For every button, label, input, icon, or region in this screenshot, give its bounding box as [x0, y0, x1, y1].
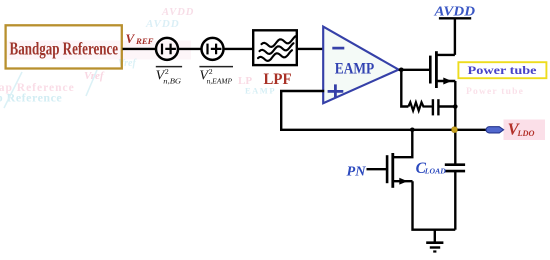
svg-text:Power tube: Power tube — [466, 87, 524, 97]
svg-text:REF: REF — [135, 36, 154, 46]
ghost text near LPF — [238, 75, 276, 96]
power rail bar and stem — [439, 18, 471, 55]
capacitor Cc — [433, 99, 455, 115]
ghost text AVDD top — [145, 7, 194, 30]
value label CLOAD — [416, 160, 447, 177]
svg-text:LDO: LDO — [517, 128, 535, 138]
wire drain down the output rail — [454, 81, 456, 165]
ghost text below bandgap box — [0, 58, 137, 108]
svg-text:PN: PN — [347, 165, 367, 180]
wire summer2 to LPF — [224, 48, 254, 50]
LPF block — [253, 30, 297, 65]
summing node 1 — [156, 38, 178, 60]
power tube label box — [458, 62, 546, 78]
wire NMOS source to ground rail — [413, 181, 456, 230]
ghost artifact band behind bandgap/VREF — [6, 41, 191, 60]
svg-text:2: 2 — [209, 67, 213, 76]
noise label Vn,EAMP — [199, 67, 233, 86]
capacitor CLOAD — [445, 165, 465, 230]
feedback wire to EAMP non-inverting input — [281, 91, 486, 130]
svg-text:n,EAMP: n,EAMP — [207, 77, 233, 86]
output port arrow — [486, 127, 504, 133]
noise label Vn,BG — [156, 67, 183, 86]
gate label PN — [347, 165, 367, 180]
svg-text:LOAD: LOAD — [424, 167, 447, 176]
wire EAMP output to power PMOS gate — [399, 69, 430, 71]
junction node Cc to output rail — [453, 104, 458, 109]
wire NMOS drain — [393, 130, 413, 157]
op-amp EAMP — [323, 27, 398, 104]
svg-text:AVDD: AVDD — [161, 7, 194, 18]
ground — [426, 230, 443, 252]
svg-text:AVDD: AVDD — [145, 18, 180, 30]
svg-text:EAMP: EAMP — [335, 61, 375, 78]
summing node 2 — [202, 38, 224, 60]
svg-text:Bandgap Reference: Bandgap Reference — [10, 38, 119, 58]
ghost pink rect behind VLDO — [504, 120, 546, 141]
resistor Rc — [408, 102, 432, 110]
node VLDO label — [508, 120, 535, 139]
transistor Q2 NMOS PN — [367, 153, 413, 188]
svg-text:n,BG: n,BG — [163, 77, 182, 86]
wire compensation branch down — [401, 70, 408, 107]
wire LPF to EAMP inverting input — [297, 48, 324, 50]
svg-text:2: 2 — [165, 67, 169, 76]
junction node NMOS drain — [410, 128, 415, 133]
node VLDO junction (orange) — [452, 127, 458, 133]
wire bandgap to summer 1 — [123, 48, 156, 50]
bandgap reference block — [6, 25, 122, 68]
wire summer1 to summer2 — [178, 48, 202, 50]
svg-text:V: V — [126, 31, 136, 46]
svg-text:LPF: LPF — [264, 71, 292, 88]
transistor Q1 power PMOS — [430, 51, 455, 88]
node at EAMP output — [399, 68, 404, 73]
svg-text:Power tube: Power tube — [468, 63, 538, 77]
node VREF label — [126, 31, 154, 46]
